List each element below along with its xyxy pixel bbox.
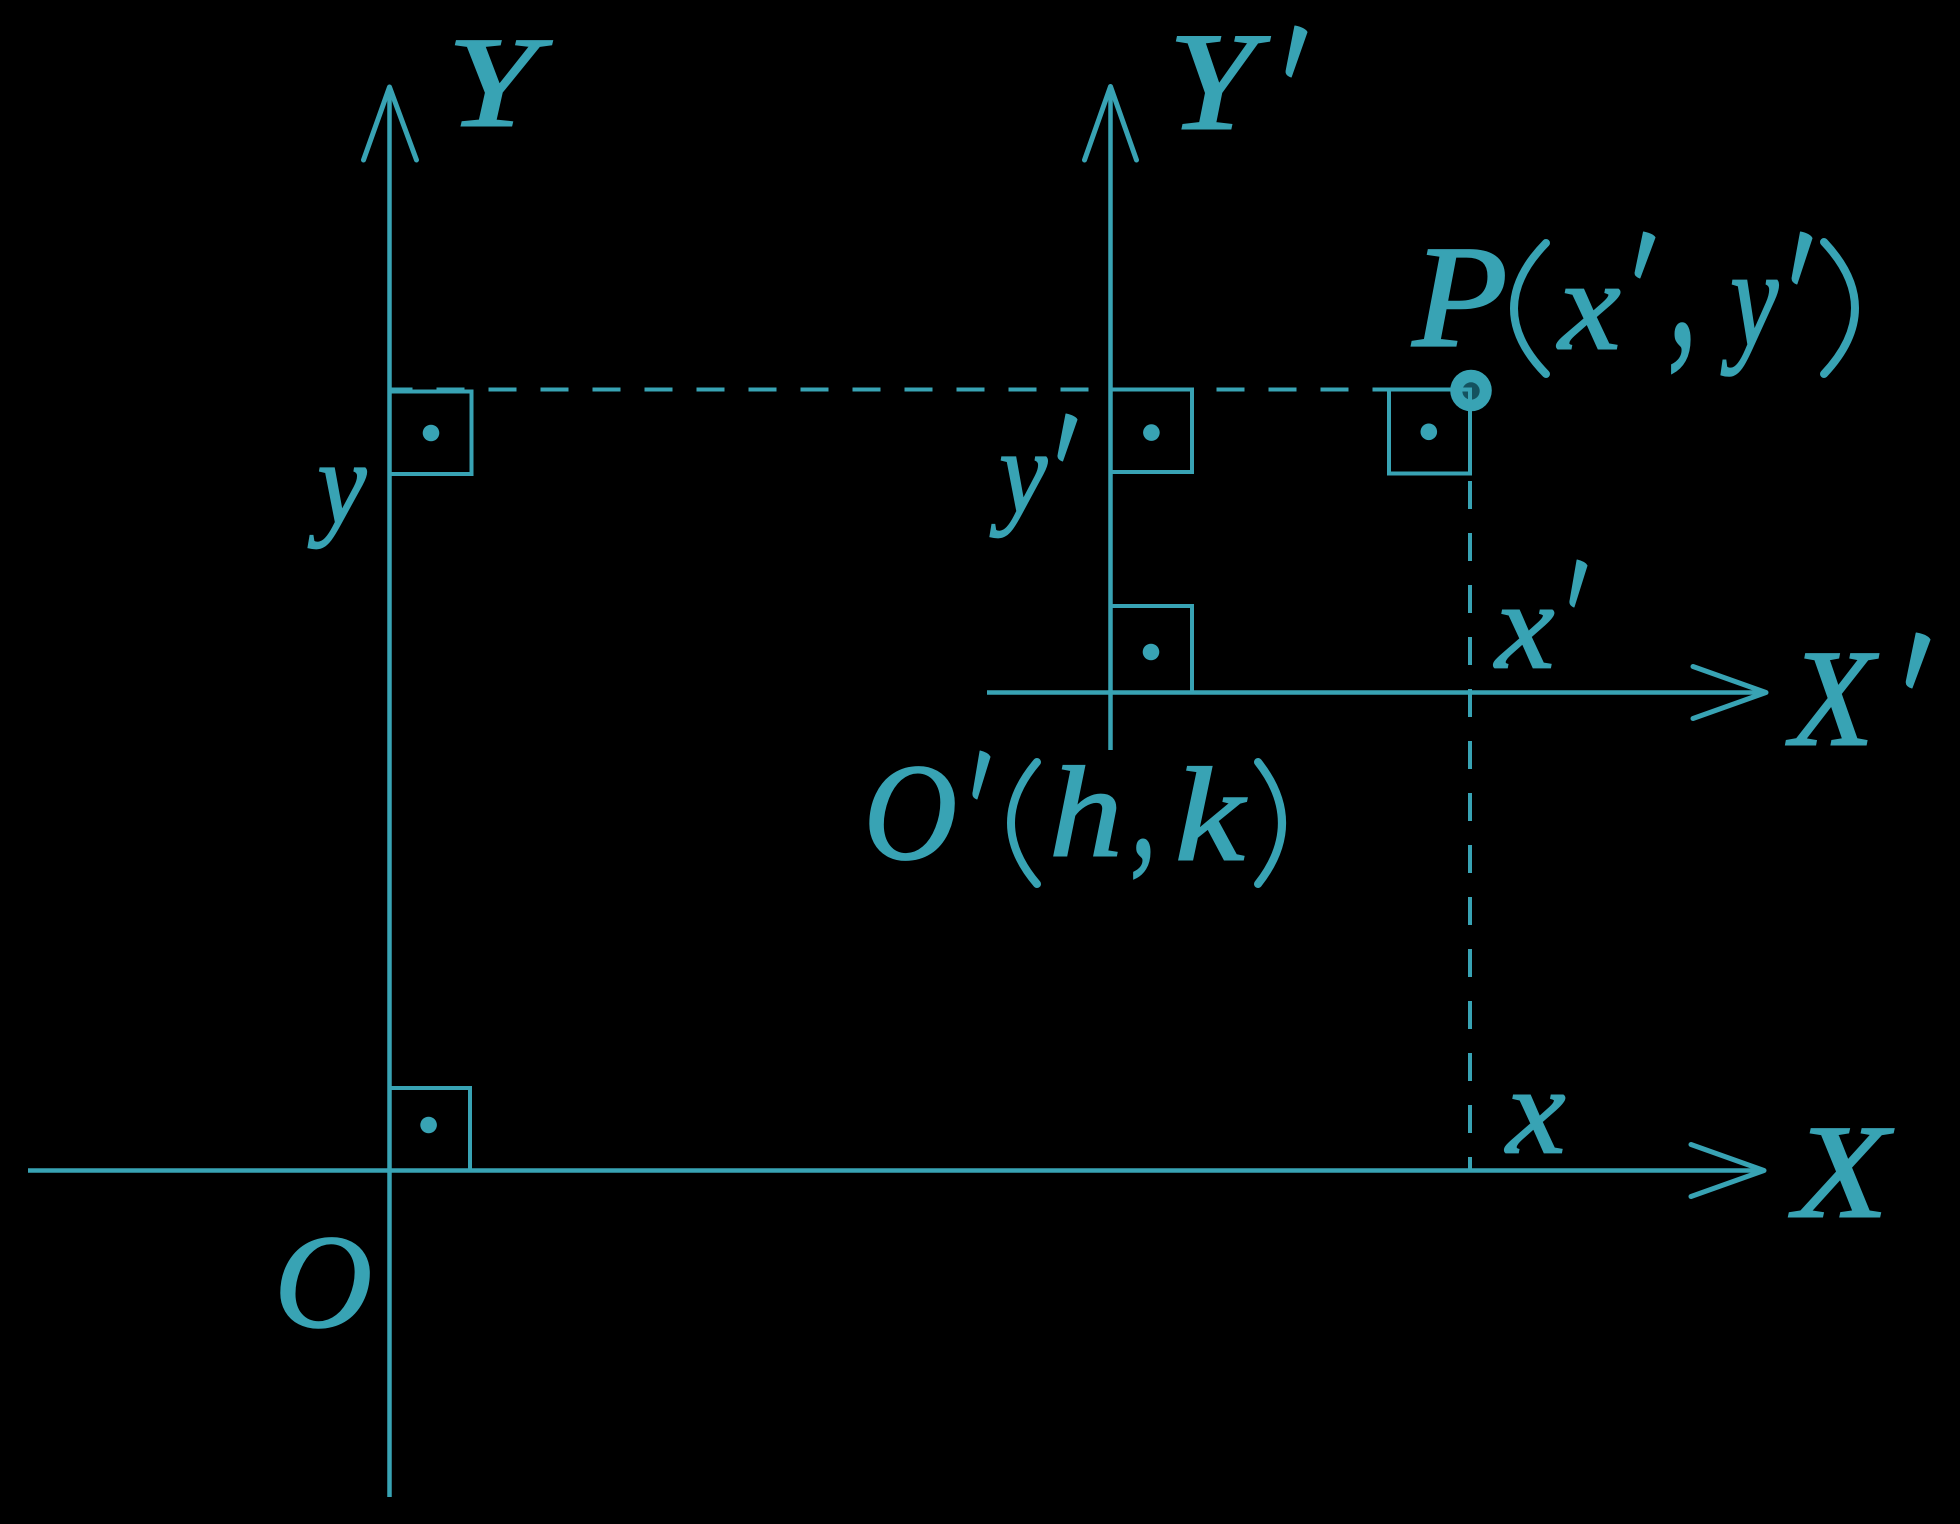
svg-text:,: ,: [1668, 175, 1697, 385]
svg-text:x: x: [1557, 235, 1621, 377]
svg-text:X: X: [1786, 622, 1879, 775]
svg-text:P: P: [1412, 216, 1508, 377]
svg-text:x: x: [1493, 556, 1554, 694]
svg-text:y: y: [1721, 221, 1779, 377]
svg-text:h: h: [1049, 741, 1123, 884]
svg-text:x: x: [1504, 1041, 1565, 1179]
svg-text:Y: Y: [1168, 5, 1270, 160]
svg-text:X: X: [1789, 1098, 1894, 1246]
svg-text:O: O: [275, 1208, 372, 1356]
svg-text:O: O: [864, 736, 957, 889]
svg-text:Y: Y: [447, 10, 552, 153]
svg-text:k: k: [1175, 741, 1247, 889]
svg-text:,: ,: [1131, 721, 1157, 888]
